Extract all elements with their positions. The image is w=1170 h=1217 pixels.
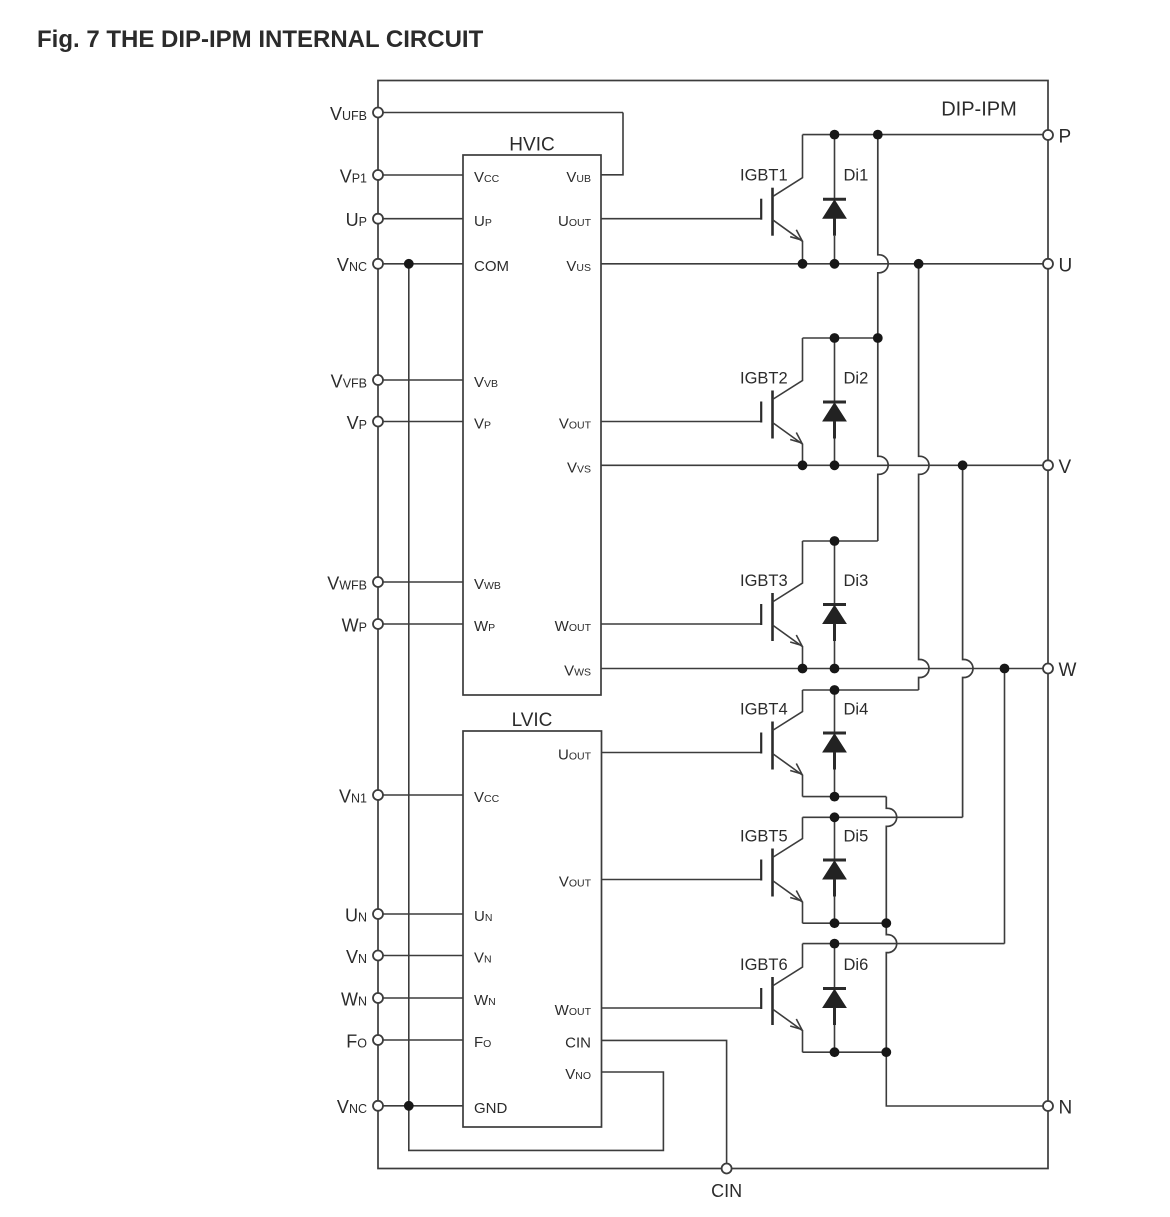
wire VP1 to HVIC VCC — [378, 174, 463, 176]
svg-text:VUS: VUS — [566, 258, 591, 275]
wire VN1 to LVIC VCC — [378, 794, 463, 796]
wire LVIC VNO return to VNC column — [409, 1072, 664, 1150]
junction IGBT6 bus / Di6 — [830, 939, 840, 949]
svg-text:N: N — [1059, 1098, 1073, 1119]
wire VNC2 to LVIC GND — [378, 1105, 463, 1107]
transistor IGBT6 — [761, 944, 802, 1053]
junction U row / IGBT1 emitter — [798, 259, 808, 269]
junction W row / IGBT3 emitter — [798, 664, 808, 674]
wire VVFB to HVIC VVB — [378, 379, 463, 381]
svg-text:VNC: VNC — [337, 1097, 367, 1117]
svg-text:Di5: Di5 — [844, 828, 869, 846]
svg-text:IGBT6: IGBT6 — [740, 956, 788, 974]
svg-text:UN: UN — [474, 908, 492, 925]
pin terminal VP1 — [373, 170, 383, 180]
pin terminal W — [1043, 664, 1053, 674]
diode Di3 — [823, 541, 846, 669]
svg-text:FO: FO — [346, 1031, 367, 1051]
wire V feed down to IGBT5 collector (hops over crossing rows) — [963, 465, 973, 817]
wire LVIC WOUT to IGBT6 gate — [602, 1007, 762, 1009]
wire UN to LVIC UN — [378, 913, 463, 915]
wire VWFB to HVIC VWB — [378, 581, 463, 583]
pin terminal CIN bottom — [722, 1164, 732, 1174]
junction VNC-GND column bottom — [404, 1101, 414, 1111]
wire U feed down to IGBT4 collector (hops over crossing rows) — [919, 264, 929, 690]
wire IGBT5 collector bus — [803, 816, 963, 818]
diode Di2 — [823, 338, 846, 465]
svg-text:IGBT5: IGBT5 — [740, 828, 788, 846]
svg-text:P: P — [1059, 127, 1072, 148]
transistor IGBT5 — [761, 817, 802, 923]
pin terminal U — [1043, 259, 1053, 269]
svg-text:VP1: VP1 — [340, 166, 367, 186]
junction IGBT5 emitter row / Di5 anode — [830, 918, 840, 928]
svg-text:HVIC: HVIC — [509, 134, 554, 155]
svg-text:IGBT3: IGBT3 — [740, 572, 788, 590]
svg-text:VWS: VWS — [564, 663, 591, 680]
svg-text:VN: VN — [474, 950, 492, 967]
svg-text:WN: WN — [341, 989, 367, 1009]
junction P bus / Di1 — [830, 130, 840, 140]
junction V row / IGBT2 emitter — [798, 460, 808, 470]
wire IGBT3 collector bus — [803, 540, 878, 542]
wire VNC to HVIC COM — [378, 263, 463, 265]
svg-text:WOUT: WOUT — [555, 1002, 592, 1019]
wire P bus row — [803, 134, 1049, 136]
svg-text:Di4: Di4 — [844, 701, 869, 719]
wire IGBT4 emitter row — [803, 796, 887, 798]
pin terminal Fo — [373, 1035, 383, 1045]
wire W feed down to IGBT6 collector — [1004, 669, 1006, 944]
pin terminal VUFB — [373, 108, 383, 118]
diode Di6 — [823, 944, 846, 1053]
wire IGBT6 emitter row — [803, 1051, 887, 1053]
svg-text:COM: COM — [474, 258, 509, 275]
svg-text:IGBT1: IGBT1 — [740, 167, 788, 185]
junction IGBT6 emitter row / Di6 anode — [830, 1047, 840, 1057]
wire VNC ground column — [408, 264, 410, 1106]
wire WN to LVIC WN — [378, 997, 463, 999]
svg-text:VCC: VCC — [474, 169, 500, 186]
svg-text:W: W — [1059, 660, 1077, 681]
wire LVIC CIN to bottom CIN pin — [602, 1040, 727, 1168]
diode Di1 — [823, 135, 846, 264]
svg-text:Di3: Di3 — [844, 572, 869, 590]
junction P bus / P feed — [873, 130, 883, 140]
pin terminal VWFB — [373, 577, 383, 587]
pin terminal V — [1043, 460, 1053, 470]
transistor IGBT3 — [761, 541, 802, 669]
svg-text:WP: WP — [342, 615, 367, 635]
junction U row / Di1 anode — [830, 259, 840, 269]
svg-text:CIN: CIN — [565, 1035, 591, 1052]
wire N bus to N pin — [886, 1052, 1048, 1106]
wire HVIC WOUT to IGBT3 gate — [601, 623, 761, 625]
svg-text:DIP-IPM: DIP-IPM — [941, 98, 1017, 120]
junction IGBT6 emitter row / N feed — [881, 1047, 891, 1057]
svg-text:UP: UP — [346, 210, 367, 230]
junction W row / W feed — [1000, 664, 1010, 674]
junction U row / U feed — [914, 259, 924, 269]
pin terminal WP — [373, 619, 383, 629]
pin terminal VVFB — [373, 375, 383, 385]
svg-text:Di1: Di1 — [844, 167, 869, 185]
pin terminal VN — [373, 951, 383, 961]
svg-text:Di2: Di2 — [844, 370, 869, 388]
junction IGBT5 bus / Di5 — [830, 812, 840, 822]
wire VUFB to corner — [378, 112, 623, 114]
wire IGBT6 collector bus — [803, 943, 1005, 945]
svg-text:VN: VN — [346, 947, 367, 967]
junction IGBT5 emitter row / N feed — [881, 918, 891, 928]
junction V row / V feed — [958, 460, 968, 470]
svg-text:WN: WN — [474, 992, 496, 1009]
wire U output row (VUS) — [601, 263, 1048, 265]
pin terminal UN — [373, 909, 383, 919]
pin terminal UP — [373, 214, 383, 224]
svg-text:VNC: VNC — [337, 255, 367, 275]
junction IGBT2 bus / P feed — [873, 333, 883, 343]
svg-text:VUB: VUB — [566, 169, 591, 186]
transistor IGBT2 — [761, 338, 802, 465]
junction W row / Di3 anode — [830, 664, 840, 674]
transistor IGBT4 — [761, 690, 802, 797]
svg-text:VP: VP — [347, 413, 367, 433]
wire P feed down to IGBT2/IGBT3 collectors (hops over crossing rows) — [878, 135, 888, 541]
wire VP to HVIC VP — [378, 421, 463, 423]
svg-text:VWFB: VWFB — [327, 573, 367, 593]
junction IGBT4 bus / Di4 — [830, 685, 840, 695]
wire LVIC VOUT to IGBT5 gate — [602, 879, 762, 881]
svg-text:Di6: Di6 — [844, 956, 869, 974]
pin terminal P — [1043, 130, 1053, 140]
IC block HVIC box — [463, 155, 601, 695]
svg-text:UN: UN — [345, 905, 367, 925]
wire HVIC VOUT to IGBT2 gate — [601, 421, 761, 423]
svg-text:VN1: VN1 — [339, 786, 367, 806]
svg-text:UOUT: UOUT — [558, 747, 592, 764]
svg-text:VNO: VNO — [565, 1066, 591, 1083]
wire LVIC UOUT to IGBT4 gate — [602, 752, 762, 754]
wire VN to LVIC VN — [378, 955, 463, 957]
svg-text:UOUT: UOUT — [558, 213, 592, 230]
wire IGBT4 collector bus — [803, 689, 919, 691]
wire HVIC UOUT to IGBT1 gate — [601, 218, 761, 220]
pin terminal VNC2 — [373, 1101, 383, 1111]
wire Fo to LVIC Fo — [378, 1039, 463, 1041]
diode Di4 — [823, 690, 846, 797]
junction VNC-COM column top — [404, 259, 414, 269]
wire UP to HVIC UP — [378, 218, 463, 220]
transistor IGBT1 — [761, 135, 802, 264]
svg-text:VP: VP — [474, 416, 491, 433]
svg-text:WP: WP — [474, 618, 495, 635]
svg-text:GND: GND — [474, 1100, 508, 1117]
svg-text:VCC: VCC — [474, 789, 500, 806]
pin terminal VN1 — [373, 790, 383, 800]
svg-text:VVB: VVB — [474, 374, 498, 391]
svg-text:VUFB: VUFB — [330, 104, 367, 124]
pin terminal VNC — [373, 259, 383, 269]
wire WP to HVIC WP — [378, 623, 463, 625]
wire IGBT2 collector bus — [803, 337, 878, 339]
DIP-IPM package outline box — [378, 81, 1048, 1169]
svg-text:U: U — [1059, 255, 1073, 276]
pin terminal WN — [373, 993, 383, 1003]
svg-text:UP: UP — [474, 213, 492, 230]
svg-text:V: V — [1059, 457, 1072, 478]
svg-text:WOUT: WOUT — [555, 618, 592, 635]
wire N feed from IGBT4 emitter down (hops over crossing rows) — [886, 797, 896, 1053]
junction IGBT2 bus / Di2 — [830, 333, 840, 343]
svg-text:VOUT: VOUT — [559, 416, 592, 433]
svg-text:VVFB: VVFB — [331, 371, 367, 391]
svg-text:VOUT: VOUT — [559, 874, 592, 891]
svg-text:IGBT2: IGBT2 — [740, 370, 788, 388]
wire IGBT5 emitter row — [803, 922, 887, 924]
svg-text:Fig. 7 THE DIP-IPM INTERNAL CI: Fig. 7 THE DIP-IPM INTERNAL CIRCUIT — [37, 26, 484, 53]
junction IGBT3 bus / Di3 — [830, 536, 840, 546]
wire V output row (VVS) — [601, 464, 1048, 466]
wire VUFB corner down to VUB — [601, 113, 623, 175]
svg-text:CIN: CIN — [711, 1181, 742, 1201]
svg-text:LVIC: LVIC — [512, 710, 553, 731]
pin terminal VP — [373, 417, 383, 427]
svg-text:IGBT4: IGBT4 — [740, 701, 788, 719]
pin terminal N — [1043, 1101, 1053, 1111]
junction V row / Di2 anode — [830, 460, 840, 470]
junction IGBT4 emitter row / Di4 anode — [830, 792, 840, 802]
svg-text:VWB: VWB — [474, 576, 501, 593]
svg-text:VVS: VVS — [567, 460, 591, 477]
diode Di5 — [823, 817, 846, 923]
wire W output row (VWS) — [601, 668, 1048, 670]
svg-text:FO: FO — [474, 1034, 491, 1051]
IC block LVIC box — [463, 731, 602, 1127]
